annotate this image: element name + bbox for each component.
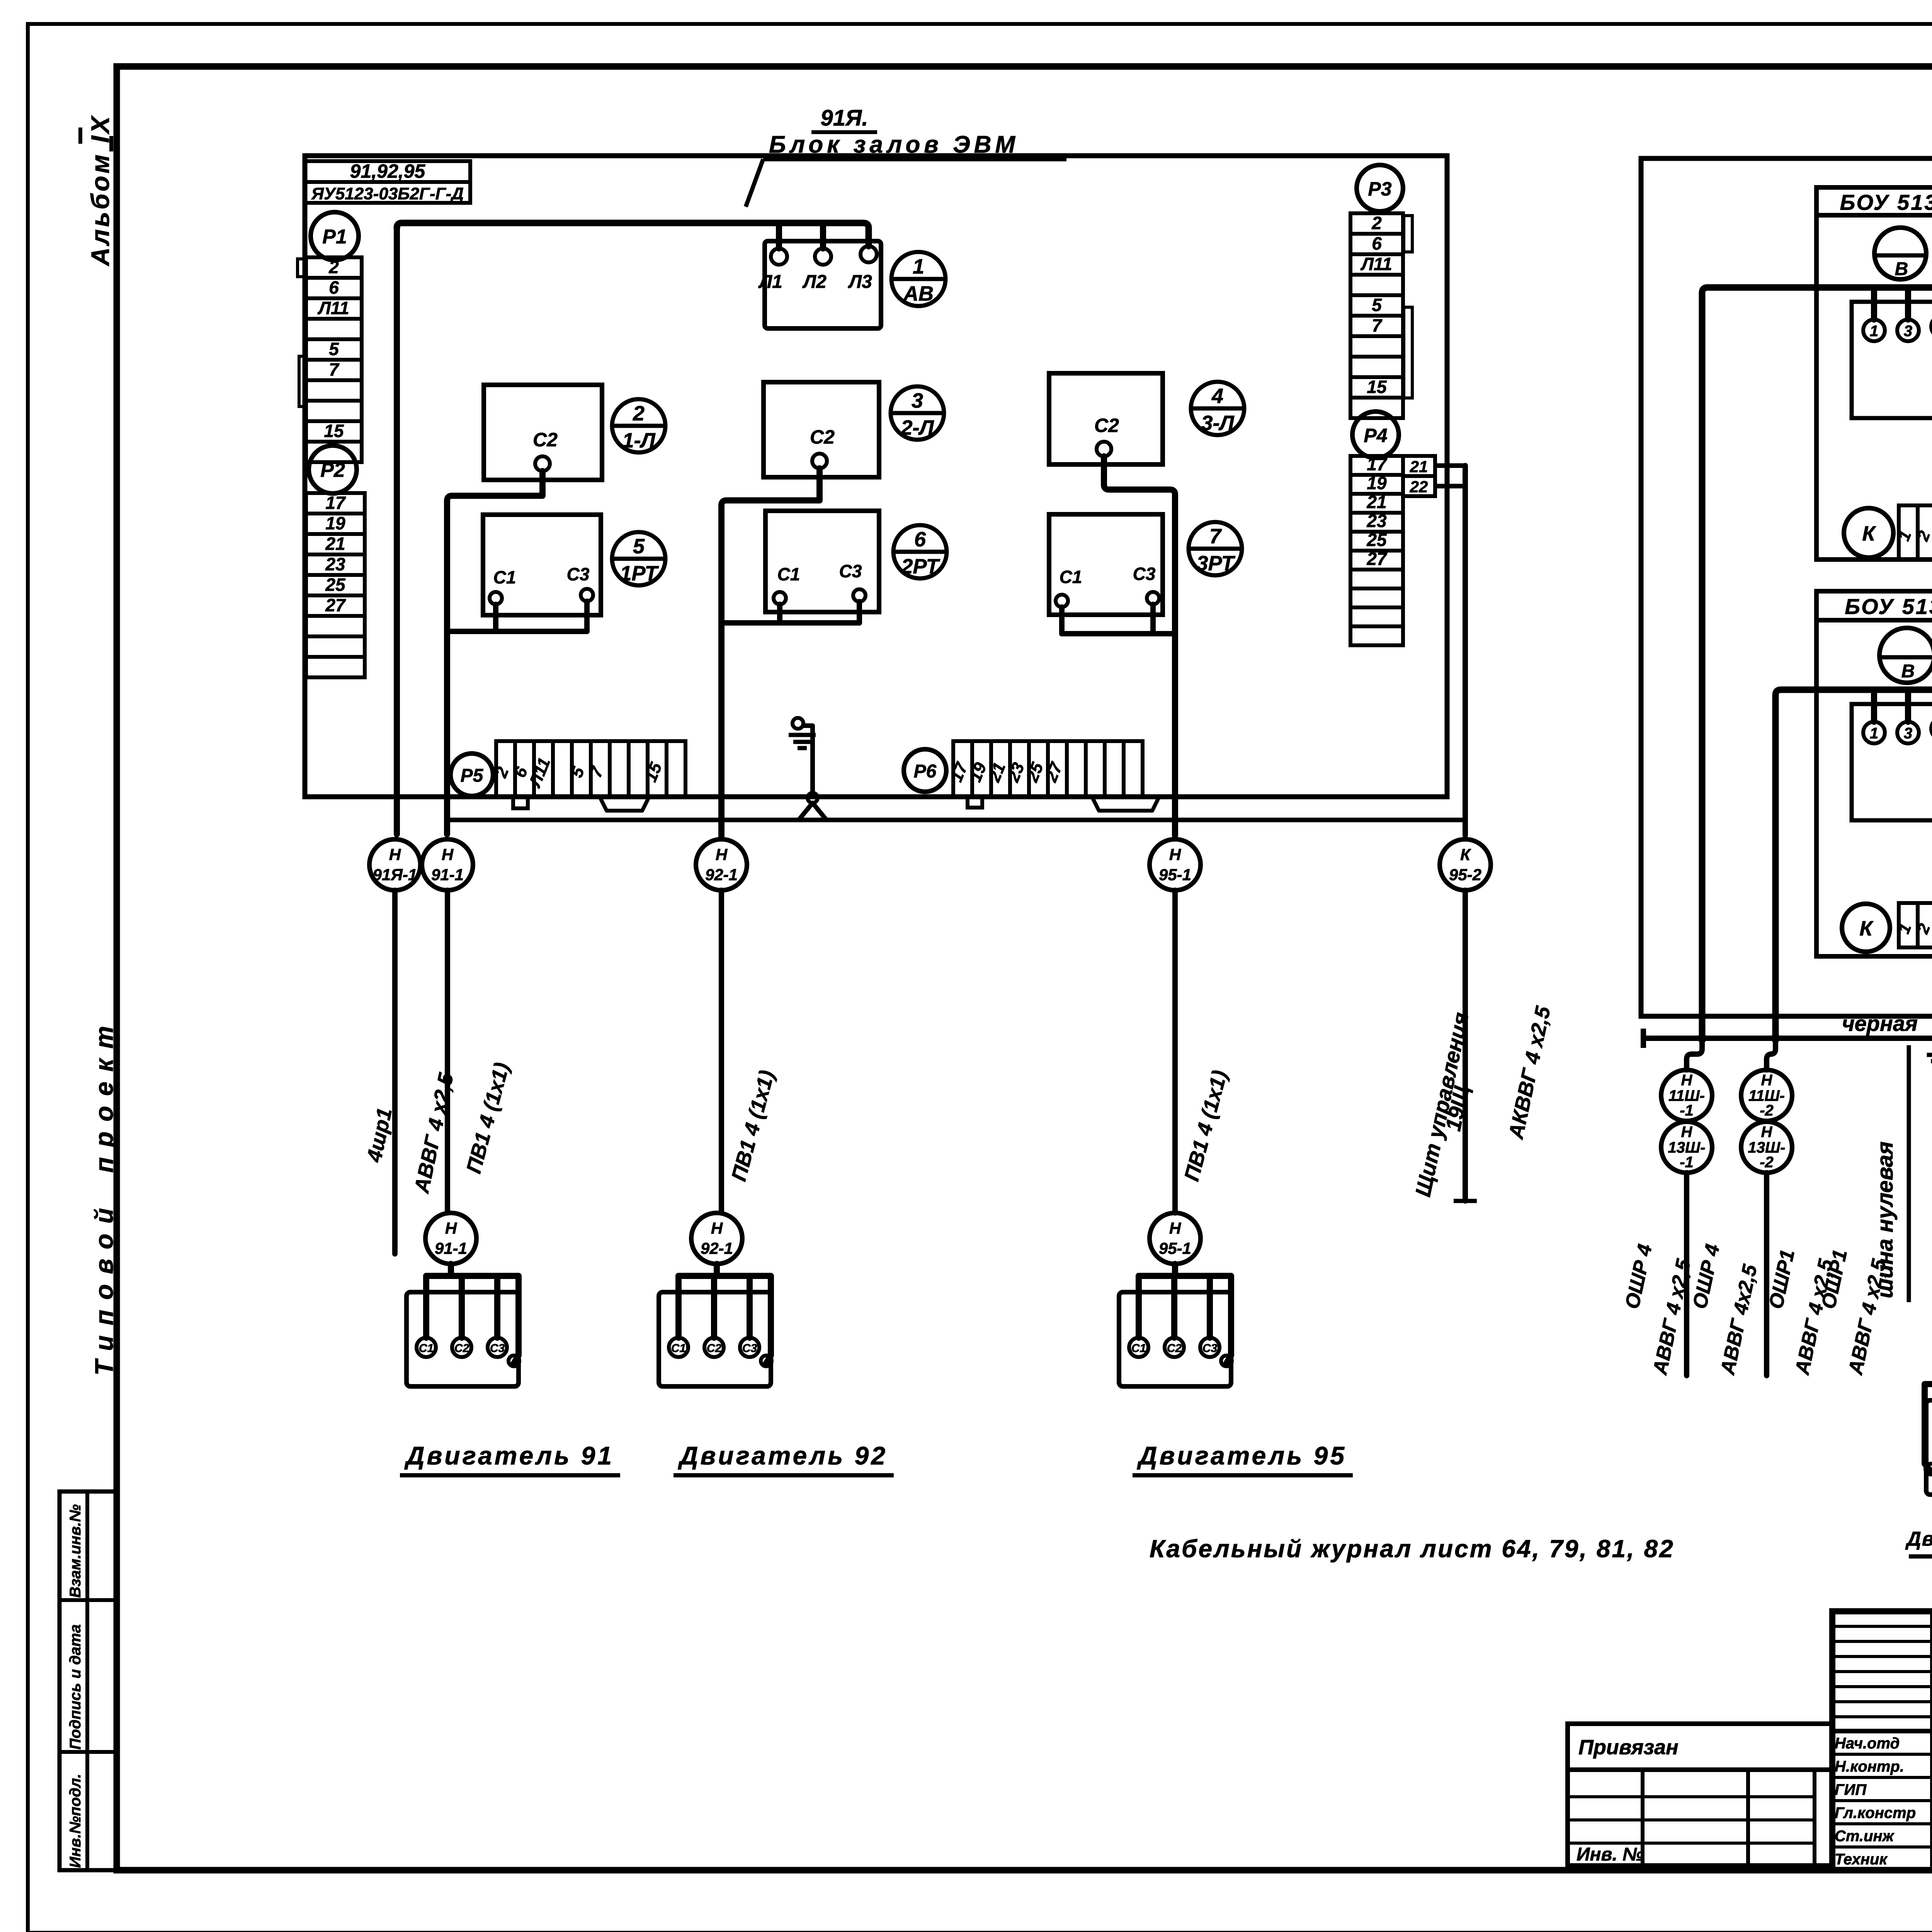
svg-text:1: 1: [913, 255, 924, 278]
svg-text:7: 7: [329, 359, 340, 379]
svg-text:-1: -1: [1680, 1102, 1694, 1119]
svg-text:Двигатель 92: Двигатель 92: [678, 1441, 888, 1470]
svg-text:19: 19: [1367, 473, 1387, 493]
svg-text:5: 5: [633, 535, 645, 558]
svg-text:С1: С1: [1060, 567, 1082, 587]
svg-text:2: 2: [328, 257, 339, 277]
svg-text:6: 6: [914, 528, 926, 551]
svg-text:Н: Н: [445, 1219, 457, 1237]
svg-text:Гл.констр: Гл.констр: [1835, 1804, 1916, 1821]
svg-text:21: 21: [1410, 457, 1428, 476]
svg-text:1РТ: 1РТ: [620, 562, 659, 585]
svg-text:4: 4: [1211, 384, 1223, 408]
svg-text:ЯУ5123-03Б2Г-Г-Д: ЯУ5123-03Б2Г-Г-Д: [311, 184, 464, 203]
svg-text:-2: -2: [1760, 1102, 1774, 1119]
svg-text:Двигатель 91: Двигатель 91: [404, 1441, 614, 1470]
svg-text:Кабельный журнал лист 64,: Кабельный журнал лист 64, 79, 81, 82: [1150, 1535, 1675, 1563]
svg-text:Р5: Р5: [461, 765, 484, 786]
svg-text:Н.контр.: Н.контр.: [1835, 1758, 1904, 1775]
svg-text:АВ: АВ: [903, 282, 934, 305]
svg-text:С1: С1: [671, 1342, 686, 1355]
svg-text:черная: черная: [1842, 1011, 1918, 1036]
svg-text:С2: С2: [454, 1342, 469, 1355]
svg-text:Н: Н: [1761, 1072, 1773, 1089]
svg-text:-1: -1: [1680, 1154, 1694, 1171]
svg-text:К: К: [1862, 522, 1876, 545]
svg-text:Типовой: Типовой: [90, 1198, 118, 1376]
svg-text:Н: Н: [1169, 1219, 1182, 1237]
svg-text:шина нулевая: шина нулевая: [1872, 1141, 1898, 1298]
svg-text:Блок залов ЭВМ: Блок залов ЭВМ: [769, 131, 1019, 158]
svg-text:С1: С1: [493, 567, 516, 587]
svg-text:Р1: Р1: [322, 226, 347, 248]
svg-text:25: 25: [325, 575, 346, 595]
svg-text:2: 2: [1371, 213, 1382, 233]
svg-text:92-1: 92-1: [705, 866, 738, 884]
svg-text:Привязан: Привязан: [1578, 1736, 1679, 1759]
svg-text:С1: С1: [419, 1342, 434, 1355]
svg-text:91-1: 91-1: [435, 1239, 467, 1257]
svg-text:23: 23: [1366, 511, 1387, 531]
svg-text:Н: Н: [442, 845, 454, 864]
svg-text:95-1: 95-1: [1159, 1239, 1191, 1257]
svg-text:91Я.: 91Я.: [821, 105, 868, 131]
svg-text:Двигатель 12: Двигатель 12: [1905, 1528, 1932, 1550]
svg-text:В: В: [1901, 661, 1915, 682]
svg-text:Инв. №: Инв. №: [1577, 1844, 1644, 1865]
svg-text:С1: С1: [1131, 1342, 1146, 1355]
svg-text:С1: С1: [777, 564, 800, 584]
svg-text:3: 3: [1904, 323, 1912, 340]
svg-text:С2: С2: [810, 426, 835, 448]
svg-text:27: 27: [1366, 549, 1388, 569]
svg-text:ГИП: ГИП: [1835, 1781, 1867, 1798]
svg-text:Н: Н: [1169, 845, 1182, 864]
svg-text:17: 17: [1367, 454, 1388, 474]
svg-text:91Я-1: 91Я-1: [373, 866, 417, 884]
svg-text:Двигатель 95: Двигатель 95: [1137, 1441, 1347, 1470]
svg-text:2: 2: [633, 402, 645, 425]
svg-text:95-1: 95-1: [1159, 866, 1191, 884]
svg-text:3-Л: 3-Л: [1201, 412, 1235, 435]
svg-text:2-Л: 2-Л: [900, 416, 934, 439]
svg-text:22: 22: [1410, 478, 1428, 496]
svg-text:Подпись и дата: Подпись и дата: [67, 1624, 84, 1750]
svg-text:Р3: Р3: [1368, 178, 1391, 200]
svg-text:Н: Н: [1681, 1124, 1693, 1141]
svg-text:15: 15: [1367, 377, 1387, 397]
svg-text:7: 7: [1372, 315, 1383, 335]
svg-text:27: 27: [325, 595, 346, 615]
svg-text:Н: Н: [1681, 1072, 1693, 1089]
svg-text:Н: Н: [711, 1219, 723, 1237]
svg-text:Р2: Р2: [320, 459, 345, 481]
svg-text:5: 5: [329, 339, 339, 359]
svg-text:91,92,95: 91,92,95: [350, 160, 426, 182]
svg-text:С2: С2: [533, 429, 558, 451]
svg-text:91-1: 91-1: [431, 866, 464, 884]
svg-text:К: К: [1859, 917, 1874, 940]
svg-text:Н: Н: [389, 845, 401, 864]
svg-text:6: 6: [1372, 233, 1382, 253]
svg-text:19: 19: [325, 513, 345, 533]
svg-text:2РТ: 2РТ: [901, 555, 940, 578]
svg-text:С3: С3: [742, 1342, 757, 1355]
svg-text:15: 15: [324, 421, 344, 441]
svg-text:Нач.отд: Нач.отд: [1835, 1735, 1900, 1752]
svg-text:25: 25: [1366, 530, 1387, 550]
svg-text:С2: С2: [1094, 415, 1119, 436]
svg-text:Л3: Л3: [848, 272, 872, 292]
svg-text:Техник: Техник: [1835, 1851, 1888, 1868]
svg-text:Н: Н: [716, 845, 728, 864]
svg-text:проект: проект: [90, 1016, 118, 1173]
svg-text:Л2: Л2: [802, 272, 827, 292]
svg-text:23: 23: [325, 554, 345, 574]
svg-text:Л1: Л1: [758, 272, 782, 292]
svg-text:К: К: [1460, 845, 1471, 864]
svg-text:3: 3: [1904, 725, 1912, 742]
svg-text:-2: -2: [1760, 1154, 1774, 1171]
svg-text:С3: С3: [490, 1342, 505, 1355]
svg-text:21: 21: [325, 534, 345, 554]
svg-text:Р4: Р4: [1364, 425, 1387, 446]
svg-text:Взам.инв.№: Взам.инв.№: [67, 1504, 84, 1598]
svg-text:92-1: 92-1: [701, 1239, 733, 1257]
svg-text:6: 6: [329, 277, 339, 298]
svg-text:В: В: [1895, 259, 1908, 279]
svg-text:С3: С3: [1202, 1342, 1218, 1355]
svg-text:Л11: Л11: [1360, 254, 1392, 274]
svg-text:1: 1: [1870, 725, 1878, 742]
svg-text:1-Л: 1-Л: [622, 429, 656, 452]
svg-text:Ст.инж: Ст.инж: [1835, 1828, 1895, 1845]
svg-text:3: 3: [912, 389, 923, 412]
svg-text:3РТ: 3РТ: [1197, 552, 1236, 575]
svg-text:21: 21: [1366, 492, 1386, 512]
svg-text:С3: С3: [839, 561, 862, 581]
svg-text:5: 5: [1372, 295, 1382, 315]
svg-text:7: 7: [1209, 525, 1222, 548]
svg-text:Л11: Л11: [317, 298, 349, 318]
svg-text:С3: С3: [1133, 564, 1156, 584]
svg-text:С2: С2: [1167, 1342, 1182, 1355]
svg-text:17: 17: [325, 493, 346, 513]
svg-text:95-2: 95-2: [1449, 866, 1481, 884]
svg-text:БОУ 5130 см. таблицу: БОУ 5130 см. таблицу: [1840, 190, 1932, 214]
svg-text:С3: С3: [567, 564, 590, 584]
svg-text:С2: С2: [707, 1342, 722, 1355]
svg-text:Н: Н: [1761, 1124, 1773, 1141]
svg-text:1: 1: [1870, 323, 1878, 340]
svg-text:БОУ 513 см. таблицу: БОУ 513 см. таблицу: [1845, 594, 1932, 619]
svg-text:Р6: Р6: [914, 761, 937, 782]
svg-text:Инв.№подл.: Инв.№подл.: [67, 1774, 84, 1868]
